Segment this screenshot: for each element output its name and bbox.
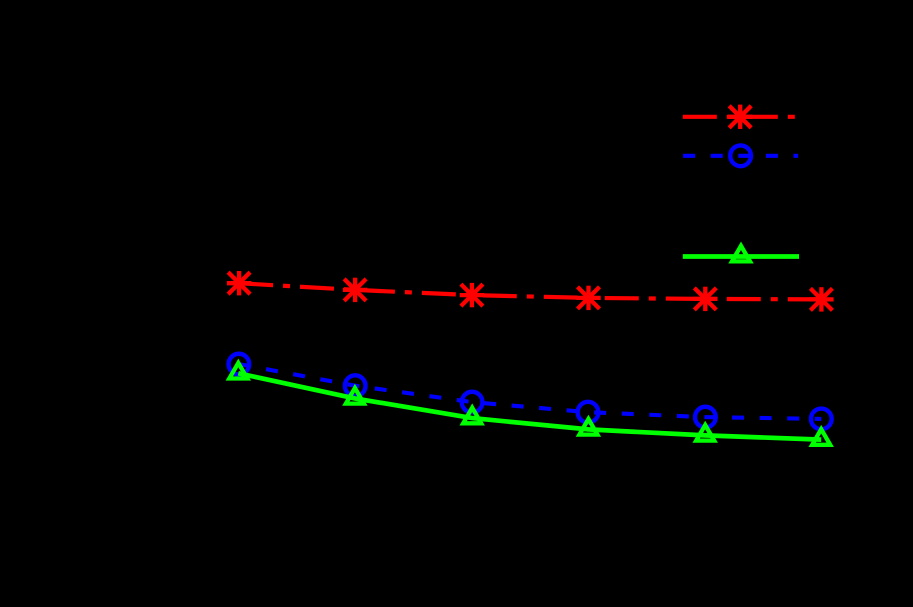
legend green solid sample line xyxy=(683,254,799,259)
red asterisk marker 3 xyxy=(460,283,484,307)
legend blue dashed sample line xyxy=(683,154,798,158)
green triangle marker 3 xyxy=(463,408,481,424)
blue circle marker 2 xyxy=(345,375,366,396)
green triangle marker 4 xyxy=(579,419,597,435)
green triangle marker 2 xyxy=(346,388,364,404)
red asterisk marker 5 xyxy=(693,287,717,311)
blue circle marker 1 xyxy=(229,354,250,375)
legend red asterisk marker xyxy=(728,105,752,129)
green triangle marker 1 xyxy=(229,363,247,379)
blue circle marker 6 xyxy=(811,409,832,430)
red dash-dot data line xyxy=(239,283,821,299)
legend red dash-dot sample line xyxy=(683,115,798,119)
blue circle marker 3 xyxy=(462,392,483,413)
green triangle marker 5 xyxy=(696,425,714,441)
legend blue circle marker xyxy=(730,145,751,166)
red asterisk marker 2 xyxy=(343,278,367,302)
blue circle marker 4 xyxy=(578,402,599,423)
blue dashed data line xyxy=(239,364,821,419)
green solid data line xyxy=(238,373,821,439)
legend green triangle marker xyxy=(732,246,750,262)
blue circle marker 5 xyxy=(695,407,716,428)
green triangle marker 6 xyxy=(812,429,830,445)
red asterisk marker 4 xyxy=(576,286,600,310)
red asterisk marker 1 xyxy=(227,271,251,295)
red asterisk marker 6 xyxy=(809,287,833,311)
